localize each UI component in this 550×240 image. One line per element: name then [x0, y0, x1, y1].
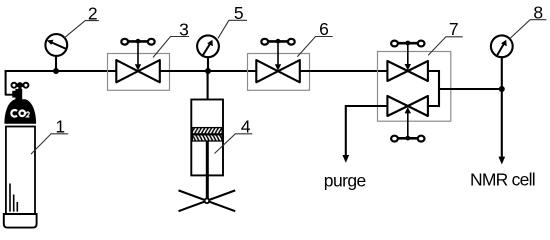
svg-text:6: 6	[319, 19, 329, 39]
label 7 leader	[428, 37, 463, 56]
gauge 8 body	[491, 35, 513, 57]
gas cylinder 1 CO2 label	[11, 110, 17, 117]
valve 7 top handle center knob	[405, 41, 410, 46]
label 1 leader	[31, 134, 68, 154]
svg-text:3: 3	[179, 20, 189, 40]
valve 3 enclosure	[108, 54, 170, 91]
label 2 leader	[64, 21, 99, 38]
svg-text:7: 7	[449, 19, 459, 39]
valve 7 bottom handle right loop	[418, 136, 425, 142]
valve 7 top bowtie	[387, 61, 428, 81]
gas cylinder 1 handwheel left ring	[12, 83, 17, 88]
svg-text:8: 8	[533, 3, 543, 23]
gauge 2 needle arrowhead	[47, 40, 54, 45]
svg-text:NMR cell: NMR cell	[470, 170, 536, 190]
valve 7 top stem arrowhead	[405, 64, 411, 70]
gauge 2 needle	[51, 42, 67, 49]
valve 3 handle bar	[127, 40, 149, 43]
gauge 8 stem	[501, 56, 503, 89]
gas cylinder 1 body	[6, 127, 35, 215]
gauge 5 needle arrowhead	[207, 40, 213, 47]
gas cylinder 1 handwheel center knob	[17, 82, 23, 88]
valve 6 handle right loop	[288, 39, 295, 45]
gas cylinder 1 valve side fitting	[12, 91, 16, 98]
syringe pump 4 barrel	[191, 100, 223, 176]
junction node under gauge 2	[53, 68, 59, 74]
valve 3 stem arrowhead	[135, 64, 141, 70]
label 3 leader	[153, 37, 189, 58]
valve 3 stem	[137, 43, 139, 66]
valve 7 bottom stem	[407, 113, 409, 137]
valve 7 top handle right loop	[418, 41, 425, 47]
svg-text:4: 4	[241, 117, 251, 137]
syringe pump 4 crank legs	[179, 190, 236, 211]
gas cylinder 1 black shoulder dome	[4, 99, 36, 124]
wire valve7 output to gauge 8 junction	[439, 88, 502, 90]
valve 3 handle left loop	[121, 39, 128, 45]
valve 7 top stem	[407, 45, 409, 65]
svg-text:5: 5	[234, 3, 244, 23]
junction node under gauge 8	[499, 86, 505, 92]
valve 7 bottom stem arrowhead	[405, 107, 411, 113]
valve 6 enclosure	[248, 54, 310, 91]
wire main pipe left segment	[6, 71, 117, 72]
valve 7 bottom bowtie	[387, 96, 428, 116]
gauge 2 stem	[55, 54, 57, 71]
gauge 8 needle	[497, 44, 503, 55]
wire pipe valve3 to valve6	[160, 70, 256, 72]
gauge 8 needle arrowhead	[501, 40, 507, 47]
valve 7 bottom handle center knob	[405, 136, 410, 141]
valve 3 handle right loop	[148, 39, 155, 45]
valve 7 top handle bar	[397, 42, 419, 45]
NMR cell arrowhead	[498, 157, 505, 165]
syringe pump 4 piston rod	[206, 141, 209, 201]
gauge 2 body	[45, 34, 67, 56]
gas cylinder 1 handwheel bar	[13, 83, 28, 87]
valve 3 handle center knob	[136, 39, 141, 44]
gas cylinder 1 shine marks	[10, 184, 17, 212]
gas cylinder 1 base cup	[4, 214, 37, 228]
wire valve7 right connector	[428, 71, 439, 106]
gauge 5 needle	[203, 44, 210, 55]
wire to NMR cell	[501, 89, 503, 158]
valve 7 bottom handle bar	[397, 137, 419, 140]
valve 7 top handle left loop	[391, 41, 398, 47]
valve 3 bowtie	[116, 60, 160, 82]
gauge 5 stem	[207, 56, 209, 71]
valve 7 bottom handle left loop	[391, 136, 398, 142]
label 4 leader	[215, 134, 253, 154]
syringe pump 4 piston upper hatch band	[192, 128, 222, 134]
wire stub from riser to cylinder valve	[5, 94, 13, 96]
wire purge branch	[346, 106, 388, 156]
valve 6 stem	[277, 43, 279, 66]
valve 6 handle center knob	[276, 39, 281, 44]
valve 6 stem arrowhead	[275, 64, 281, 70]
syringe pump 4 piston lower hatch band	[192, 135, 222, 141]
svg-text:1: 1	[55, 116, 65, 136]
valve block 7 enclosure	[378, 52, 451, 122]
gas cylinder 1 valve stem	[18, 85, 21, 89]
wire riser from cylinder valve to main pipe	[5, 71, 7, 95]
valve 6 handle bar	[267, 40, 289, 43]
label 8 leader	[509, 20, 546, 39]
valve 6 bowtie	[256, 60, 300, 82]
valve 6 handle left loop	[261, 39, 268, 45]
syringe pump 4 crank hub	[205, 199, 210, 204]
svg-text:purge: purge	[324, 170, 366, 190]
gauge 5 body	[197, 35, 219, 57]
gas cylinder 1 valve neck	[15, 89, 22, 100]
label 5 leader	[218, 20, 247, 38]
junction node under gauge 5	[205, 68, 211, 74]
label 6 leader	[297, 37, 332, 57]
purge arrowhead	[342, 155, 349, 163]
wire from junction down to syringe pump 4	[207, 71, 209, 100]
svg-text:2: 2	[88, 4, 98, 24]
gas cylinder 1 handwheel right ring	[23, 83, 28, 88]
wire pipe valve6 to valve block 7	[300, 70, 388, 72]
